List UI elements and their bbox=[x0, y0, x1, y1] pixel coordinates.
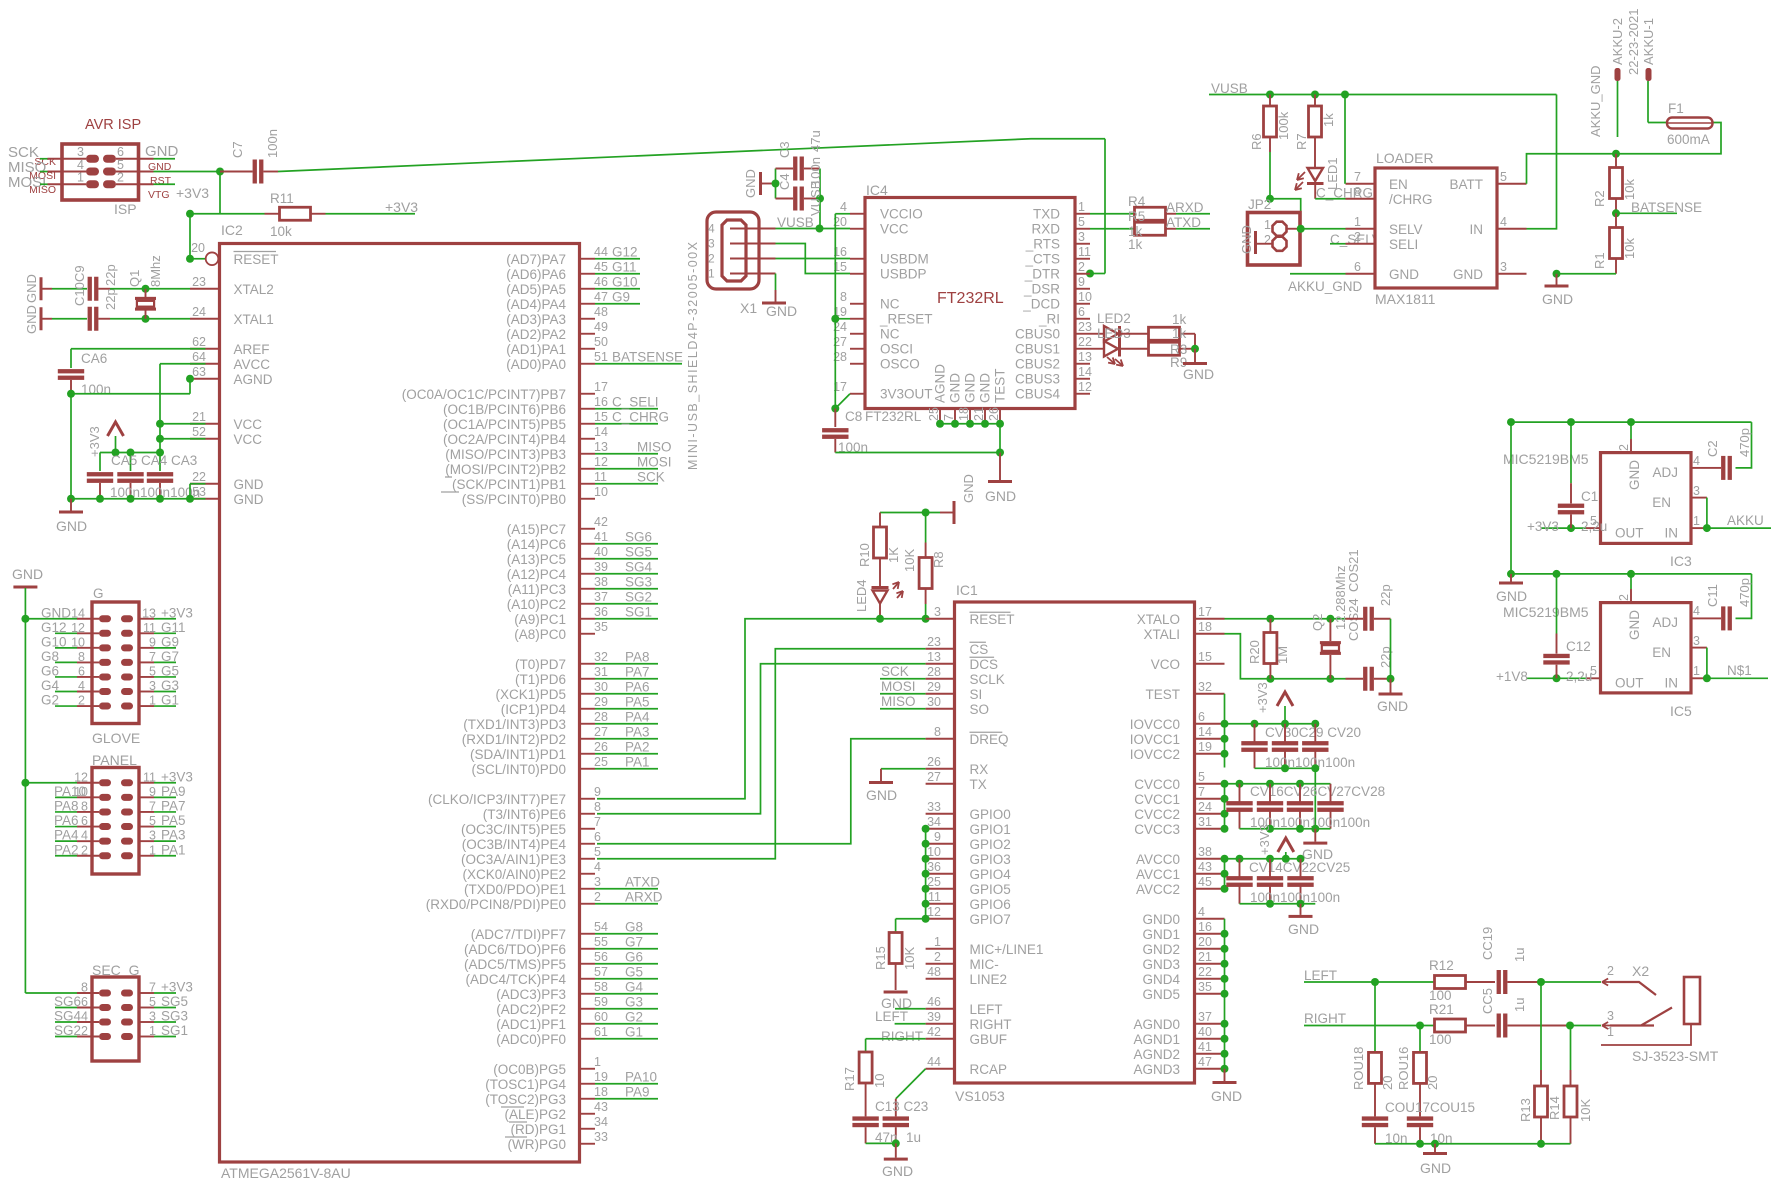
svg-text:FT232RL: FT232RL bbox=[937, 290, 1004, 307]
svg-text:R13: R13 bbox=[1518, 1098, 1533, 1122]
wire AREF to CA6 bbox=[71, 348, 206, 350]
svg-text:4: 4 bbox=[1693, 604, 1700, 618]
svg-text:64: 64 bbox=[192, 350, 206, 364]
svg-text:GPIO4: GPIO4 bbox=[970, 867, 1012, 882]
capacitor CA4 bbox=[130, 453, 132, 472]
svg-text:R7: R7 bbox=[1294, 133, 1309, 150]
wire GPIO7 to R15 bbox=[896, 918, 926, 920]
svg-text:12: 12 bbox=[71, 621, 85, 635]
LED LED1 bbox=[1314, 152, 1316, 168]
svg-text:9: 9 bbox=[149, 785, 156, 799]
junction C12 bbox=[1553, 674, 1561, 682]
capacitor C13 47n bbox=[852, 1116, 878, 1120]
svg-text:SG5: SG5 bbox=[625, 544, 652, 559]
wire X1.4 VUSB bbox=[776, 228, 820, 230]
svg-text:RIGHT: RIGHT bbox=[1304, 1011, 1346, 1026]
resistor R15 10K bbox=[889, 933, 902, 964]
wire LEFT bbox=[895, 1008, 926, 1010]
svg-text:SG3: SG3 bbox=[625, 574, 652, 589]
svg-text:470p: 470p bbox=[1737, 428, 1752, 457]
svg-text:G1: G1 bbox=[161, 693, 179, 708]
svg-text:G12: G12 bbox=[612, 244, 638, 259]
svg-text:48: 48 bbox=[594, 305, 608, 319]
svg-text:(AD7)PA7: (AD7)PA7 bbox=[506, 252, 566, 267]
IC2 pin 29 (ICP1)PD4 net PA5 bbox=[580, 708, 596, 710]
svg-text:8: 8 bbox=[78, 650, 85, 664]
IC2 pin 17 (OC0A/OC1C/PCINT7)PB7 bbox=[580, 393, 596, 395]
svg-text:BATSENSE: BATSENSE bbox=[612, 349, 683, 364]
wire IC1 right gnd chain bbox=[1224, 919, 1226, 1069]
wire gnd top rail for R10/R8 bbox=[880, 512, 940, 514]
svg-text:(MOSI/PCINT2)PB2: (MOSI/PCINT2)PB2 bbox=[445, 462, 566, 477]
wire caps to VUSB bbox=[819, 199, 821, 229]
IC4 pin 23 CBUS0 bbox=[1075, 333, 1090, 335]
capacitor COS21 22p (XTALO) bbox=[1346, 618, 1364, 620]
svg-text:GLOVE: GLOVE bbox=[92, 730, 140, 746]
wire VUSB to IC4 VCC bbox=[820, 228, 851, 230]
svg-text:15: 15 bbox=[594, 410, 608, 424]
wire SCK to IC1 SCLK bbox=[880, 678, 926, 680]
gnd symbol below CVCC bbox=[1314, 829, 1316, 842]
resistor R6 100k bbox=[1269, 95, 1271, 107]
svg-text:57: 57 bbox=[594, 965, 608, 979]
svg-text:COU17COU15: COU17COU15 bbox=[1385, 1100, 1475, 1115]
svg-text:SG1: SG1 bbox=[161, 1023, 188, 1038]
svg-text:R14: R14 bbox=[1547, 1096, 1562, 1120]
svg-text:(TOSC2)PG3: (TOSC2)PG3 bbox=[485, 1092, 566, 1107]
junction at C7 left bbox=[216, 168, 224, 176]
svg-text:6: 6 bbox=[1198, 710, 1205, 724]
svg-text:26: 26 bbox=[594, 740, 608, 754]
svg-text:42: 42 bbox=[927, 1025, 941, 1039]
IC1 pin 31 CVCC3 bbox=[1195, 828, 1225, 830]
svg-text:GND3: GND3 bbox=[1142, 957, 1180, 972]
IC1 pin 16 GND1 bbox=[1195, 933, 1225, 935]
svg-text:EN: EN bbox=[1652, 645, 1671, 660]
svg-text:6: 6 bbox=[81, 995, 88, 1009]
svg-text:+1V8: +1V8 bbox=[1496, 669, 1528, 684]
svg-text:4: 4 bbox=[708, 222, 715, 236]
svg-text:7: 7 bbox=[594, 815, 601, 829]
svg-text:22: 22 bbox=[1078, 335, 1092, 349]
svg-text:GND: GND bbox=[948, 373, 963, 403]
svg-text:7: 7 bbox=[149, 650, 156, 664]
junction ROU16 bbox=[1416, 1022, 1424, 1030]
svg-text:(RD)PG1: (RD)PG1 bbox=[510, 1122, 566, 1137]
svg-text:CC19: CC19 bbox=[1480, 927, 1495, 960]
IC2 pin 47 (AD4)PA4 net G9 bbox=[580, 303, 596, 305]
svg-text:+3V3: +3V3 bbox=[1255, 682, 1270, 713]
svg-text:XTALO: XTALO bbox=[1137, 612, 1180, 627]
svg-text:45: 45 bbox=[594, 260, 608, 274]
capacitor CV14 bbox=[1239, 859, 1241, 877]
svg-text:AGND1: AGND1 bbox=[1133, 1032, 1180, 1047]
JP2 pad 1 bbox=[1273, 222, 1287, 236]
svg-text:GND: GND bbox=[24, 305, 39, 334]
IC2 pin 5 (OC3A/AIN1)PE3 bbox=[580, 858, 596, 860]
svg-text:Q1: Q1 bbox=[127, 270, 142, 287]
svg-text:1: 1 bbox=[934, 935, 941, 949]
svg-text:4: 4 bbox=[840, 200, 847, 214]
PANEL right pin 7 PA7 bbox=[139, 811, 154, 813]
net label LEFT (IC1 side) bbox=[1304, 981, 1345, 983]
wire glove gnd rail bbox=[24, 588, 26, 993]
junction VUSB at X1 bbox=[816, 225, 824, 233]
IC3 pin 2 GND top bbox=[1630, 439, 1632, 453]
svg-text:R8: R8 bbox=[931, 551, 946, 568]
IC1 pin 47 AGND3 bbox=[1195, 1068, 1225, 1070]
wire AKKU-2 down (AKKU_GND) bbox=[1617, 81, 1619, 137]
GLOVE left pin 8 G8 bbox=[77, 661, 99, 663]
svg-text:LOADER: LOADER bbox=[1376, 150, 1434, 166]
svg-text:VTG: VTG bbox=[148, 189, 170, 201]
svg-text:32: 32 bbox=[1198, 680, 1212, 694]
svg-text:22p: 22p bbox=[103, 264, 118, 286]
svg-text:50: 50 bbox=[594, 335, 608, 349]
svg-text:AKKU: AKKU bbox=[1727, 513, 1764, 528]
IC1 pin 45 AVCC2 bbox=[1195, 888, 1225, 890]
svg-text:CBUS4: CBUS4 bbox=[1015, 386, 1061, 401]
IC4 pin 4 VCCIO bbox=[850, 213, 865, 215]
junction C3/C4 left bbox=[772, 180, 780, 188]
svg-text:LINE2: LINE2 bbox=[970, 972, 1008, 987]
junction C8 gnd bbox=[996, 449, 1004, 457]
svg-text:30: 30 bbox=[927, 695, 941, 709]
resistor R2 10k bbox=[1615, 154, 1617, 168]
GLOVE right pin 11 G11 bbox=[139, 632, 154, 634]
svg-text:37: 37 bbox=[1198, 1010, 1212, 1024]
svg-text:MAX1811: MAX1811 bbox=[1375, 291, 1436, 307]
IC2 pin 49 (AD2)PA2 bbox=[580, 333, 596, 335]
SEC_G row 1 pads bbox=[99, 990, 111, 997]
GLOVE right pin 13 +3V3 bbox=[139, 618, 154, 620]
IC2 pin 61 (ADC0)PF0 net G1 bbox=[580, 1038, 596, 1040]
IC1 pin 40 AGND1 bbox=[1195, 1038, 1225, 1040]
svg-text:OUT: OUT bbox=[1615, 676, 1644, 691]
junction CC5/R14 bbox=[1566, 1022, 1574, 1030]
wire C_SELI stub bbox=[1330, 243, 1346, 245]
IC2 pin 36 (A9)PC1 net SG1 bbox=[580, 618, 596, 620]
svg-text:TX: TX bbox=[970, 777, 987, 792]
svg-text:22p: 22p bbox=[1378, 584, 1393, 606]
IC2 pin 3 (TXD0/PDO)PE1 net ATXD bbox=[580, 888, 596, 890]
wire MISO to IC1 SO bbox=[880, 708, 926, 710]
svg-text:R17: R17 bbox=[842, 1067, 857, 1091]
wire AKKU bbox=[1707, 527, 1771, 529]
svg-text:36: 36 bbox=[594, 605, 608, 619]
IC1 pin 8 DREQ bbox=[926, 738, 955, 740]
svg-text:20: 20 bbox=[1198, 935, 1212, 949]
wire LEFT to R12 bbox=[1345, 981, 1435, 983]
resistor R3 bbox=[1121, 333, 1149, 335]
svg-text:1u: 1u bbox=[906, 1130, 921, 1145]
svg-text:10k: 10k bbox=[1622, 179, 1637, 200]
SEC_G right pin 5 SG5 bbox=[139, 1007, 154, 1009]
svg-text:1: 1 bbox=[149, 843, 156, 857]
IC2 pin 28 (TXD1/INT3)PD3 net PA4 bbox=[580, 723, 596, 725]
SEC_G right pin 3 SG3 bbox=[139, 1021, 154, 1023]
svg-text:3: 3 bbox=[1693, 634, 1700, 648]
svg-text:RESET: RESET bbox=[234, 252, 279, 267]
IC1 pin 32 TEST bbox=[1195, 693, 1225, 695]
IC1 pin 5 CVCC0 bbox=[1195, 783, 1225, 785]
svg-text:AVCC: AVCC bbox=[234, 357, 271, 372]
IC1 pin 48 LINE2 bbox=[926, 978, 955, 980]
svg-text:5: 5 bbox=[1500, 170, 1507, 184]
svg-text:SG6: SG6 bbox=[625, 529, 652, 544]
capacitor C12 2.2u bbox=[1556, 574, 1558, 634]
resistor R1 10k bbox=[1615, 213, 1617, 227]
svg-text:14: 14 bbox=[594, 425, 608, 439]
IC2 pin 21 VCC bbox=[190, 423, 220, 425]
GLOVE right pin 3 G3 bbox=[139, 691, 154, 693]
IC1 pin 29 SI bbox=[926, 693, 955, 695]
IC2 pin 10 (SS/PCINT0)PB0 bbox=[580, 498, 596, 500]
SEC_G row 2 pads bbox=[99, 1004, 111, 1011]
svg-text:USBDM: USBDM bbox=[880, 251, 929, 266]
svg-text:1: 1 bbox=[1078, 200, 1085, 214]
svg-text:(ICP1)PD4: (ICP1)PD4 bbox=[501, 702, 567, 717]
IC2 pin 22 GND bbox=[190, 483, 220, 485]
svg-text:3: 3 bbox=[1500, 260, 1507, 274]
IC2 pin 34 (RD)PG1 bbox=[580, 1128, 596, 1130]
svg-text:RXD: RXD bbox=[1031, 221, 1060, 236]
svg-text:(TXD0/PDO)PE1: (TXD0/PDO)PE1 bbox=[464, 882, 566, 897]
IC1 pin 4 GND0 bbox=[1195, 918, 1225, 920]
capacitor COS24 22p (XTALI) bbox=[1346, 678, 1364, 680]
svg-text:20: 20 bbox=[1380, 1076, 1395, 1090]
LED LED2 bbox=[1090, 333, 1104, 335]
PANEL left pin 2 PA2 bbox=[77, 855, 99, 857]
GLOVE row 3 pads bbox=[99, 644, 111, 651]
wire VUSB rail bbox=[1209, 94, 1557, 96]
junction below CA6 bbox=[67, 390, 75, 398]
svg-text:7: 7 bbox=[1198, 785, 1205, 799]
svg-text:R15: R15 bbox=[873, 946, 888, 970]
svg-text:GND: GND bbox=[1211, 1088, 1242, 1104]
SEC_G row 4 pads bbox=[99, 1033, 111, 1040]
IC2 pin 11 (SCK/PCINT1)PB1 net SCK bbox=[580, 483, 596, 485]
IC4 pin 2 _DTR bbox=[1075, 273, 1090, 275]
IC2 pin 57 (ADC4/TCK)PF4 net G5 bbox=[580, 978, 596, 980]
wire BATT to F1 rail bbox=[1527, 123, 1722, 184]
svg-text:40: 40 bbox=[1198, 1025, 1212, 1039]
svg-text:1: 1 bbox=[1693, 664, 1700, 678]
IC4 pin 6 _RI bbox=[1075, 318, 1090, 320]
crystal Q2 12.288Mhz bbox=[1329, 619, 1331, 641]
PANEL left pin 8 PA8 bbox=[77, 811, 99, 813]
capacitor CV25 bbox=[1300, 859, 1302, 877]
svg-text:IN: IN bbox=[1470, 222, 1484, 237]
svg-text:CV30C29 CV20: CV30C29 CV20 bbox=[1265, 725, 1361, 740]
wire RIGHT to R21 bbox=[1345, 1025, 1435, 1027]
svg-text:18: 18 bbox=[957, 407, 971, 421]
wire IC4 ground chain bbox=[940, 423, 1000, 425]
wire MOSI to ISP.1 bbox=[40, 183, 48, 185]
capacitor C23 1u bbox=[883, 1116, 909, 1120]
ISP pin 1 (MOSI) bbox=[48, 183, 87, 185]
IC1 pin 23 CS bbox=[926, 648, 955, 650]
svg-text:10K: 10K bbox=[902, 549, 917, 572]
svg-text:C10: C10 bbox=[72, 282, 87, 306]
svg-text:C13 C23: C13 C23 bbox=[875, 1099, 928, 1114]
svg-text:TEST: TEST bbox=[1145, 687, 1180, 702]
svg-text:/CHRG: /CHRG bbox=[1389, 192, 1433, 207]
wire rail down to C11 right bbox=[1736, 574, 1752, 619]
svg-text:(RXD1/INT2)PD2: (RXD1/INT2)PD2 bbox=[462, 732, 566, 747]
IC1 pin 30 SO bbox=[926, 708, 955, 710]
IC1 pin 2 MIC- bbox=[926, 963, 955, 965]
junction IN/EN bbox=[1703, 524, 1711, 532]
svg-text:GND2: GND2 bbox=[1142, 942, 1180, 957]
svg-text:GND: GND bbox=[1542, 291, 1573, 307]
svg-text:(TXD1/INT3)PD3: (TXD1/INT3)PD3 bbox=[463, 717, 566, 732]
svg-text:PA7: PA7 bbox=[625, 664, 650, 679]
GLOVE row 6 pads bbox=[99, 688, 111, 695]
svg-text:43: 43 bbox=[594, 1100, 608, 1114]
svg-text:JP2: JP2 bbox=[1248, 197, 1271, 212]
svg-text:OSCO: OSCO bbox=[880, 356, 920, 371]
IC1 pin 37 AGND0 bbox=[1195, 1023, 1225, 1025]
wire GPIO chain bbox=[925, 829, 927, 919]
crystal Q1 8Mhz bbox=[145, 289, 147, 298]
X2 sleeve body bbox=[1684, 977, 1700, 1024]
svg-text:CA6: CA6 bbox=[81, 351, 107, 366]
IC5 pin 1 IN bbox=[1691, 677, 1707, 679]
wire N$1 bbox=[1707, 677, 1768, 679]
svg-text:10: 10 bbox=[872, 1074, 887, 1088]
IC4 pin 9 _DSR bbox=[1075, 288, 1090, 290]
svg-text:TEST: TEST bbox=[993, 368, 1008, 403]
SEC_G left pin 4 SG4 bbox=[77, 1021, 99, 1023]
IC1 pin 11 GPIO6 bbox=[926, 903, 955, 905]
IC4 pin 24 NC bbox=[850, 333, 865, 335]
svg-text:41: 41 bbox=[594, 530, 608, 544]
svg-text:G3: G3 bbox=[625, 994, 643, 1009]
svg-text:GND: GND bbox=[1389, 267, 1419, 282]
IC3 pin 1 IN bbox=[1691, 527, 1707, 529]
svg-text:X1: X1 bbox=[740, 300, 757, 316]
svg-text:GPIO3: GPIO3 bbox=[970, 852, 1011, 867]
IC2 pin 38 (A11)PC3 net SG3 bbox=[580, 588, 596, 590]
svg-text:10: 10 bbox=[927, 845, 941, 859]
svg-text:46: 46 bbox=[927, 995, 941, 1009]
svg-text:14: 14 bbox=[1078, 365, 1092, 379]
svg-text:SG3: SG3 bbox=[161, 1009, 188, 1024]
svg-text:GND: GND bbox=[1627, 460, 1642, 490]
svg-text:23: 23 bbox=[1078, 320, 1092, 334]
IC1 pin 17 XTALO bbox=[1195, 618, 1225, 620]
svg-text:EN: EN bbox=[1389, 177, 1408, 192]
svg-text:22: 22 bbox=[1198, 965, 1212, 979]
IC3 pin 4 ADJ bbox=[1691, 467, 1706, 469]
svg-text:C_SELI: C_SELI bbox=[612, 394, 659, 409]
svg-text:(A15)PC7: (A15)PC7 bbox=[507, 522, 566, 537]
svg-text:(AD2)PA2: (AD2)PA2 bbox=[506, 327, 566, 342]
svg-text:(TOSC1)PG4: (TOSC1)PG4 bbox=[485, 1077, 566, 1092]
wire RXD to R5 bbox=[1090, 228, 1135, 230]
overline RD bbox=[509, 1121, 527, 1123]
svg-text:4: 4 bbox=[1500, 215, 1507, 229]
svg-text:AREF: AREF bbox=[234, 342, 270, 357]
capacitor C8 bbox=[834, 409, 836, 428]
svg-text:R5: R5 bbox=[1128, 209, 1145, 224]
svg-text:62: 62 bbox=[192, 335, 206, 349]
svg-text:3: 3 bbox=[149, 679, 156, 693]
IC1 pin 26 RX bbox=[926, 768, 955, 770]
IC2 pin 45 (AD6)PA6 net G11 bbox=[580, 273, 596, 275]
IC5 OUT pin 5 bbox=[1586, 677, 1601, 679]
wire AVCC down to VCC rail bbox=[160, 363, 206, 365]
junction VCC1 bbox=[156, 420, 164, 428]
svg-text:2: 2 bbox=[1354, 230, 1361, 244]
IC1 pin 1 MIC+/LINE1 bbox=[926, 948, 955, 950]
svg-text:PA6: PA6 bbox=[625, 679, 650, 694]
svg-text:+3V3: +3V3 bbox=[87, 426, 102, 457]
svg-text:10K: 10K bbox=[902, 947, 917, 970]
IC1 pin 43 AVCC1 bbox=[1195, 873, 1225, 875]
junction at IC2 RESET bbox=[186, 255, 194, 263]
svg-text:27: 27 bbox=[927, 770, 941, 784]
svg-text:16: 16 bbox=[1198, 920, 1212, 934]
IC2 pin 37 (A10)PC2 net SG2 bbox=[580, 603, 596, 605]
svg-text:9: 9 bbox=[149, 635, 156, 649]
IC2 pin 6 (OC3B/INT4)PE4 bbox=[580, 843, 596, 845]
X2 pin 1 bbox=[1601, 1024, 1691, 1045]
wire CVCC rail bbox=[1225, 783, 1331, 785]
svg-text:3: 3 bbox=[1693, 484, 1700, 498]
capacitor C3 (47u) bbox=[776, 168, 794, 170]
IC4 pin 12 CBUS4 bbox=[1075, 393, 1090, 395]
svg-text:AKKU_GND: AKKU_GND bbox=[1588, 65, 1603, 137]
svg-text:GND: GND bbox=[1239, 225, 1254, 254]
LOADER pin 6 GND bbox=[1346, 273, 1376, 275]
IC1 pin 21 GND3 bbox=[1195, 963, 1225, 965]
svg-text:6: 6 bbox=[117, 145, 124, 159]
svg-text:11: 11 bbox=[594, 470, 607, 484]
svg-text:9: 9 bbox=[594, 785, 601, 799]
svg-text:(OC1B/PCINT6)PB6: (OC1B/PCINT6)PB6 bbox=[443, 402, 566, 417]
resistor R14 10K bbox=[1570, 1026, 1572, 1071]
X1 pin 1 bbox=[730, 273, 776, 275]
svg-text:100n100n100n: 100n100n100n bbox=[1250, 890, 1340, 905]
svg-text:GPIO1: GPIO1 bbox=[970, 822, 1011, 837]
svg-text:49: 49 bbox=[594, 320, 608, 334]
svg-text:1: 1 bbox=[149, 694, 156, 708]
SEC_G right pin 1 SG1 bbox=[139, 1036, 154, 1038]
svg-text:ARXD: ARXD bbox=[625, 889, 663, 904]
wire VCC rail to caps bbox=[159, 439, 161, 453]
resistor ROU18 20 bbox=[1374, 982, 1376, 1052]
wire audio gnd rail bbox=[1375, 1143, 1571, 1145]
svg-text:6: 6 bbox=[81, 814, 88, 828]
IC1 pin 6 IOVCC0 bbox=[1195, 723, 1225, 725]
svg-text:+3V3: +3V3 bbox=[1257, 824, 1272, 855]
svg-text:63: 63 bbox=[192, 365, 206, 379]
svg-text:IC1: IC1 bbox=[956, 582, 978, 598]
svg-text:G2: G2 bbox=[41, 693, 59, 708]
svg-text:3: 3 bbox=[594, 875, 601, 889]
wire C8 to gnd chain bbox=[835, 452, 1000, 454]
IC1 pin 35 GND5 bbox=[1195, 993, 1225, 995]
LED LED4 bbox=[872, 586, 889, 589]
svg-text:CVCC0: CVCC0 bbox=[1134, 777, 1180, 792]
IC4 pin 1 TXD bbox=[1075, 213, 1090, 215]
svg-text:GND: GND bbox=[145, 143, 179, 160]
IC1 pin 46 LEFT bbox=[926, 1008, 955, 1010]
svg-text:24: 24 bbox=[1198, 800, 1212, 814]
svg-text:47u: 47u bbox=[808, 130, 823, 152]
